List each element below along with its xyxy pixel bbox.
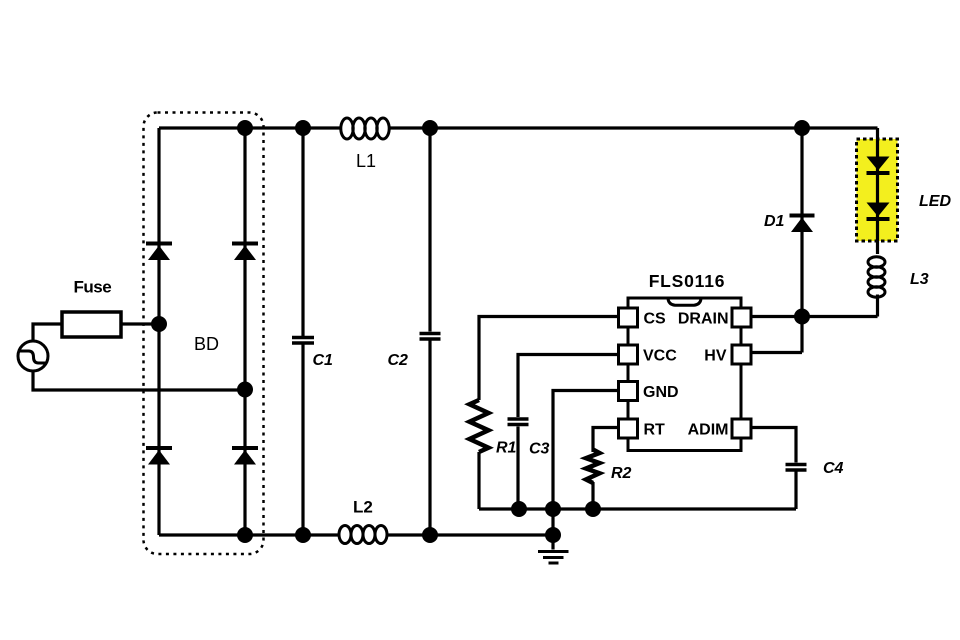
svg-text:Fuse: Fuse [74,278,112,297]
svg-text:ADIM: ADIM [688,422,729,439]
svg-text:C2: C2 [388,352,409,369]
svg-text:LED: LED [919,193,951,210]
svg-text:L3: L3 [910,271,929,288]
svg-text:R2: R2 [611,465,632,482]
svg-text:L1: L1 [356,151,376,171]
svg-text:C1: C1 [313,352,334,369]
svg-text:DRAIN: DRAIN [678,311,729,328]
svg-text:D1: D1 [764,213,785,230]
svg-text:HV: HV [704,348,727,365]
svg-text:BD: BD [194,334,219,354]
svg-text:C3: C3 [529,441,550,458]
svg-text:FLS0116: FLS0116 [649,271,726,291]
svg-text:VCC: VCC [643,348,677,365]
svg-text:C4: C4 [823,460,844,477]
svg-text:R1: R1 [496,440,517,457]
svg-text:L2: L2 [353,498,373,517]
svg-text:CS: CS [644,311,667,328]
svg-text:GND: GND [643,384,679,401]
svg-text:RT: RT [644,422,666,439]
